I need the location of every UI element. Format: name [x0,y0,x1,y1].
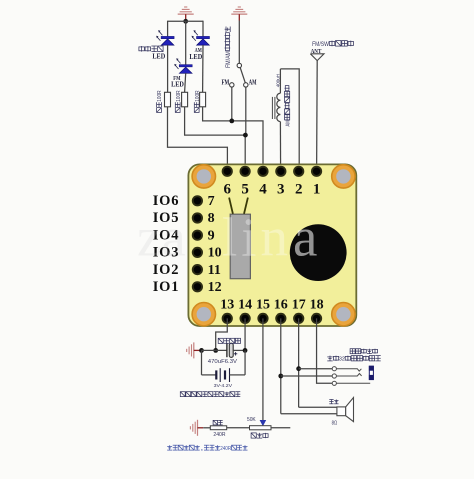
label 电解电容 [218,338,223,343]
switch SW1 FM contact [230,83,234,87]
svg-text:240R: 240R [220,446,231,452]
label FM/AM选择开关 (rotated) [225,27,232,68]
wire - coil top to pin2 (loop) [280,69,299,171]
svg-text:1: 1 [313,182,321,198]
pin 8 [192,212,203,223]
chip blob (black epoxy) on module [290,224,347,281]
svg-text:2: 2 [295,182,303,198]
svg-text:a: a [293,207,317,268]
jack J1 plug body [369,366,373,379]
wire - FM contact to pin4 node [231,87,233,121]
svg-text:18: 18 [310,297,324,312]
svg-text:11: 11 [208,263,221,278]
wire - coil bottom to pin3 [279,122,281,172]
switch SW1 common terminal [237,63,241,67]
pin 9 [192,230,203,241]
wire - R4 to pot [227,427,250,429]
svg-text:50K: 50K [247,417,256,423]
label 两节干电池或一节锂电池 [180,392,185,397]
label 电阻100R (R2) [175,90,182,112]
pin 18 [311,313,322,324]
svg-text:15: 15 [256,297,270,312]
label 插入32欧立体声耳机 [329,356,331,361]
svg-text:14: 14 [238,297,252,312]
label 电阻100R (R3) [194,90,201,112]
svg-text:9: 9 [208,228,215,243]
resistor R1 100R [165,92,171,107]
pin 7 [192,195,203,206]
pin 5 [240,166,251,177]
label 立体声插座 [350,349,355,354]
svg-text:AM: AM [285,120,291,127]
svg-text:LED: LED [189,52,202,61]
wire - R2 to pin5 [185,107,246,172]
svg-text:FM/AM: FM/AM [226,51,232,68]
svg-text:4: 4 [259,182,267,198]
wire - pin16 down [280,318,282,413]
wire - battery right lead [230,374,246,376]
trimmer leg to pin5 area [244,198,248,214]
wire - LED top rail [168,20,204,22]
jack J1 tip contact circle [332,367,336,371]
ground symbol GND4 (volume) [189,426,191,429]
svg-text:400uH: 400uH [276,73,282,87]
junction node (pin17/jack top) [296,366,301,371]
jack J1 tip spring [336,369,361,371]
svg-text:FM: FM [222,78,230,86]
pin 4 [257,166,268,177]
junction node (AM/pin5) [243,133,248,138]
wire - speaker bottom lead [281,413,337,415]
inductor L1 core lines [271,97,273,119]
pin 2 [293,166,304,177]
junction node (pin16/jack mid) [278,374,283,379]
battery BT1 plates [215,370,217,379]
label 调谐指示 [139,47,145,51]
pin 17 [293,313,304,324]
svg-text:8Ω: 8Ω [332,421,338,427]
label 喇叭 [329,399,333,401]
junction node (LED supply rail) [183,19,188,24]
inductor L1 400uH AM loopstick coil [279,69,281,93]
jack J1 sleeve contact circle [332,381,336,385]
jack J1 sleeve lead [336,382,370,384]
wire - rail to LED3 cathode [185,21,187,64]
junction node (pin13/rail) [213,348,218,353]
pin 15 [257,313,268,324]
wire - battery right riser [244,350,246,375]
pin 3 [275,166,286,177]
wire - jack mid feed [281,375,332,377]
wire - gnd to R4 [203,427,210,429]
resistor R3 100R [200,92,206,107]
svg-text:AM: AM [249,78,257,86]
wire - rail right segment [233,349,245,351]
svg-text:LED: LED [171,79,184,88]
wire - LED1 anode to R1 [167,45,169,92]
svg-text:17: 17 [292,297,306,312]
pin 11 [192,264,203,275]
wire - pin15 to pot wiper [262,318,264,420]
ground symbol GND2 (above switch) [238,6,241,8]
svg-text:3V-4.2V: 3V-4.2V [214,383,233,389]
wire - jack top feed [299,368,333,370]
svg-text:10: 10 [208,246,222,261]
label AM中波天线输入 (rotated) [285,86,292,127]
svg-text:16: 16 [274,297,288,312]
label 电阻100R (R1) [157,90,164,112]
svg-text:32: 32 [339,357,345,363]
pin 6 [222,166,233,177]
potentiometer RP1 50K body [250,426,272,430]
pot wiper arrow [260,420,267,426]
svg-text:8: 8 [208,211,215,226]
svg-text:100R: 100R [195,90,201,102]
resistor R2 100R [182,92,188,107]
capacitor C1 electrolytic 470uF (right plate) [229,343,233,357]
LED D2 AM indicator [197,36,210,38]
svg-text:240R: 240R [213,432,225,438]
ground symbol GND1 (top, above LED rail) [184,6,187,8]
wire - GND2 to switch common [238,21,240,64]
wire - pin14 to rail [244,318,246,350]
wire - pin18 to jack sleeve [317,318,333,383]
junction node (gnd/battery-) [199,348,204,353]
wire - R1 to pin6 [168,107,228,172]
label 如需更小音量 [169,445,171,450]
radio module U1 PCB body [188,164,356,326]
svg-text:100R: 100R [157,90,163,102]
jack J1 ring spring [336,374,361,377]
mounting hole (bottom-left) [192,303,215,326]
label 电位器 [251,433,256,438]
switch SW1 arm [240,68,245,83]
wire - battery left riser [201,350,203,375]
antenna ANT symbol [310,54,324,61]
svg-text:LED: LED [152,51,165,60]
svg-text:13: 13 [220,297,234,312]
capacitor C1 plus mark [234,353,237,355]
wire - speaker top lead [299,406,337,408]
ground symbol GND3 (battery rail) [186,349,188,352]
wire - rail to LED1 cathode [167,21,169,37]
capacitor C1 electrolytic 470uF (left plate) [226,343,228,357]
svg-text:lin: lin [222,207,292,268]
wire - rail left segment [202,349,227,351]
svg-text:6: 6 [224,182,232,198]
jack J1 ring contact circle [332,374,336,378]
pin 10 [192,247,203,258]
mounting hole (top-left) [192,165,215,188]
resistor R4 240R [210,426,226,430]
speaker LS1 [337,407,346,416]
pin 16 [275,313,286,324]
LED D3 FM indicator [179,65,192,67]
svg-text:za: za [137,207,186,268]
pin 14 [240,313,251,324]
wire - battery left lead [202,374,216,376]
svg-text:100R: 100R [176,90,182,102]
pin 1 [311,166,322,177]
switch SW1 AM contact [244,83,248,87]
wire - LED2 anode to R3 [202,45,204,92]
trimmer leg to pin6 area [229,198,233,214]
wire - antenna to pin1 [316,61,319,172]
pin 12 [192,281,203,292]
wire - AM contact to pin5 node [245,87,247,135]
wire - pin17 down [298,318,300,407]
label 电阻 (R4) [213,420,218,425]
svg-text:,: , [200,446,204,452]
wire - rail to LED2 cathode [202,21,204,37]
LED D1 tuning indicator [161,36,174,38]
svg-text:3: 3 [277,182,285,198]
wire - LED3 anode to R2 [185,73,186,92]
mounting hole (bottom-right) [332,303,355,326]
mounting hole (top-right) [332,165,355,188]
wire - R3 to pin4 [203,107,263,172]
junction node (pin14/battery+) [243,348,248,353]
svg-text:12: 12 [208,280,222,295]
wire - pin13 to supply rail [216,318,228,350]
svg-text:IO1: IO1 [153,279,180,295]
junction node (FM/pin4) [229,119,234,124]
svg-text:470uF6.3V: 470uF6.3V [208,359,237,365]
label 400uH (rotated) [276,73,282,87]
pin 13 [222,313,233,324]
svg-text:7: 7 [208,194,215,209]
svg-text:5: 5 [241,182,249,198]
wire - pot right lead [271,427,290,429]
trimmer/tuning component (grey) on module [230,214,250,279]
